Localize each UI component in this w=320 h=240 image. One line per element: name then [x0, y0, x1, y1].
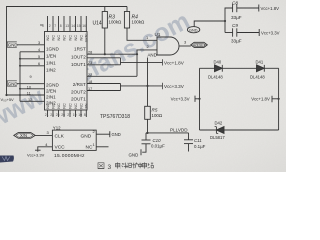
watermark dark corner fragment [0, 156, 14, 163]
ground tag GND pin3 [7, 42, 17, 48]
pin number row dash [40, 24, 44, 26]
IC bottom pin stubs [48, 110, 87, 117]
wire 2OUT join vertical [120, 84, 122, 91]
wire pin4 1/EN [20, 51, 45, 53]
oscillator Y12 body [52, 130, 96, 150]
IC top pin stubs [48, 16, 87, 32]
wire 2OUT2 pin18 [87, 83, 121, 85]
caption 图3 电源时钟电路 (CJK simulated) [98, 162, 154, 170]
ground tag GND below C10 [140, 149, 142, 155]
IC U14 TPS767D318 body [45, 32, 88, 111]
IC bottom NC labels rotated [46, 103, 89, 109]
diode D41 DL4148 [257, 65, 265, 72]
flag Vcc+3.3V mid [162, 83, 164, 89]
wire osc pin1 NC [96, 146, 108, 148]
IC left pin names [46, 47, 59, 106]
IC top NC labels rotated [46, 33, 89, 43]
wire AND output pin3 [179, 45, 191, 47]
scan grain overlay [0, 0, 286, 172]
watermark www.elecfans.com [0, 7, 194, 135]
wire pin5 1IN1 [20, 58, 45, 60]
wire pin6 1IN2 [20, 65, 45, 67]
wire to Vcc+1.8V flag [121, 61, 163, 63]
wire 1OUT join vertical [120, 58, 122, 65]
pin numbers left [27, 41, 40, 102]
node Vcc+1.8V flag right [271, 96, 273, 103]
pin numbers bottom row [45, 113, 86, 117]
wire 1OUT1 pin20 [87, 64, 121, 66]
wire 2OUT1 pin17 [87, 90, 121, 92]
capacitor C11 [184, 133, 193, 152]
op-amp U1 AND gate body [157, 37, 179, 55]
wire RST join vertical [137, 50, 157, 76]
ground tag GND pin9 [7, 81, 17, 87]
wire left supply vertical [19, 52, 21, 102]
capacitor C9 [225, 28, 259, 36]
diode D42 DL5817 [215, 127, 224, 134]
flag Vcc+1.8V mid [162, 59, 164, 65]
wire pin9 2GND to GND tag [17, 83, 45, 85]
wire to Vcc+3.3V flag [121, 85, 163, 87]
wire osc pin4 VCC [38, 147, 53, 152]
wire PLLVDD net [146, 132, 189, 134]
wire osc pin2 GND [96, 133, 110, 135]
wire 1RST pin28 [87, 53, 137, 55]
wire +5V top rail [7, 7, 128, 96]
wire pin10 2/EN [20, 88, 45, 90]
pin numbers top row [42, 24, 86, 28]
node Vcc+3.3V flag mid right [195, 98, 200, 100]
wire pin12 2IN2 [20, 100, 45, 102]
ground GND oval near AND gate [187, 21, 225, 33]
wire right loop box [199, 68, 201, 130]
pin numbers right [88, 51, 92, 91]
node X/N tag [14, 133, 35, 139]
wire +5V rail to IC pin11 row [7, 94, 45, 96]
capacitor C10 [142, 133, 151, 152]
resistor R4 [124, 7, 157, 41]
wire X/N to CLK [35, 134, 52, 136]
resistor R3 [102, 7, 107, 55]
resistor R5 [145, 58, 151, 133]
wire 2RST pin22 [87, 75, 137, 77]
wire 1OUT2 pin23 [87, 57, 121, 59]
wire pin3 1GND to GND tag [17, 44, 45, 46]
diode D40 DL4148 [215, 65, 223, 72]
node RESET tag [191, 42, 208, 47]
IC right pin names [71, 47, 86, 102]
capacitor C8 [225, 4, 259, 33]
